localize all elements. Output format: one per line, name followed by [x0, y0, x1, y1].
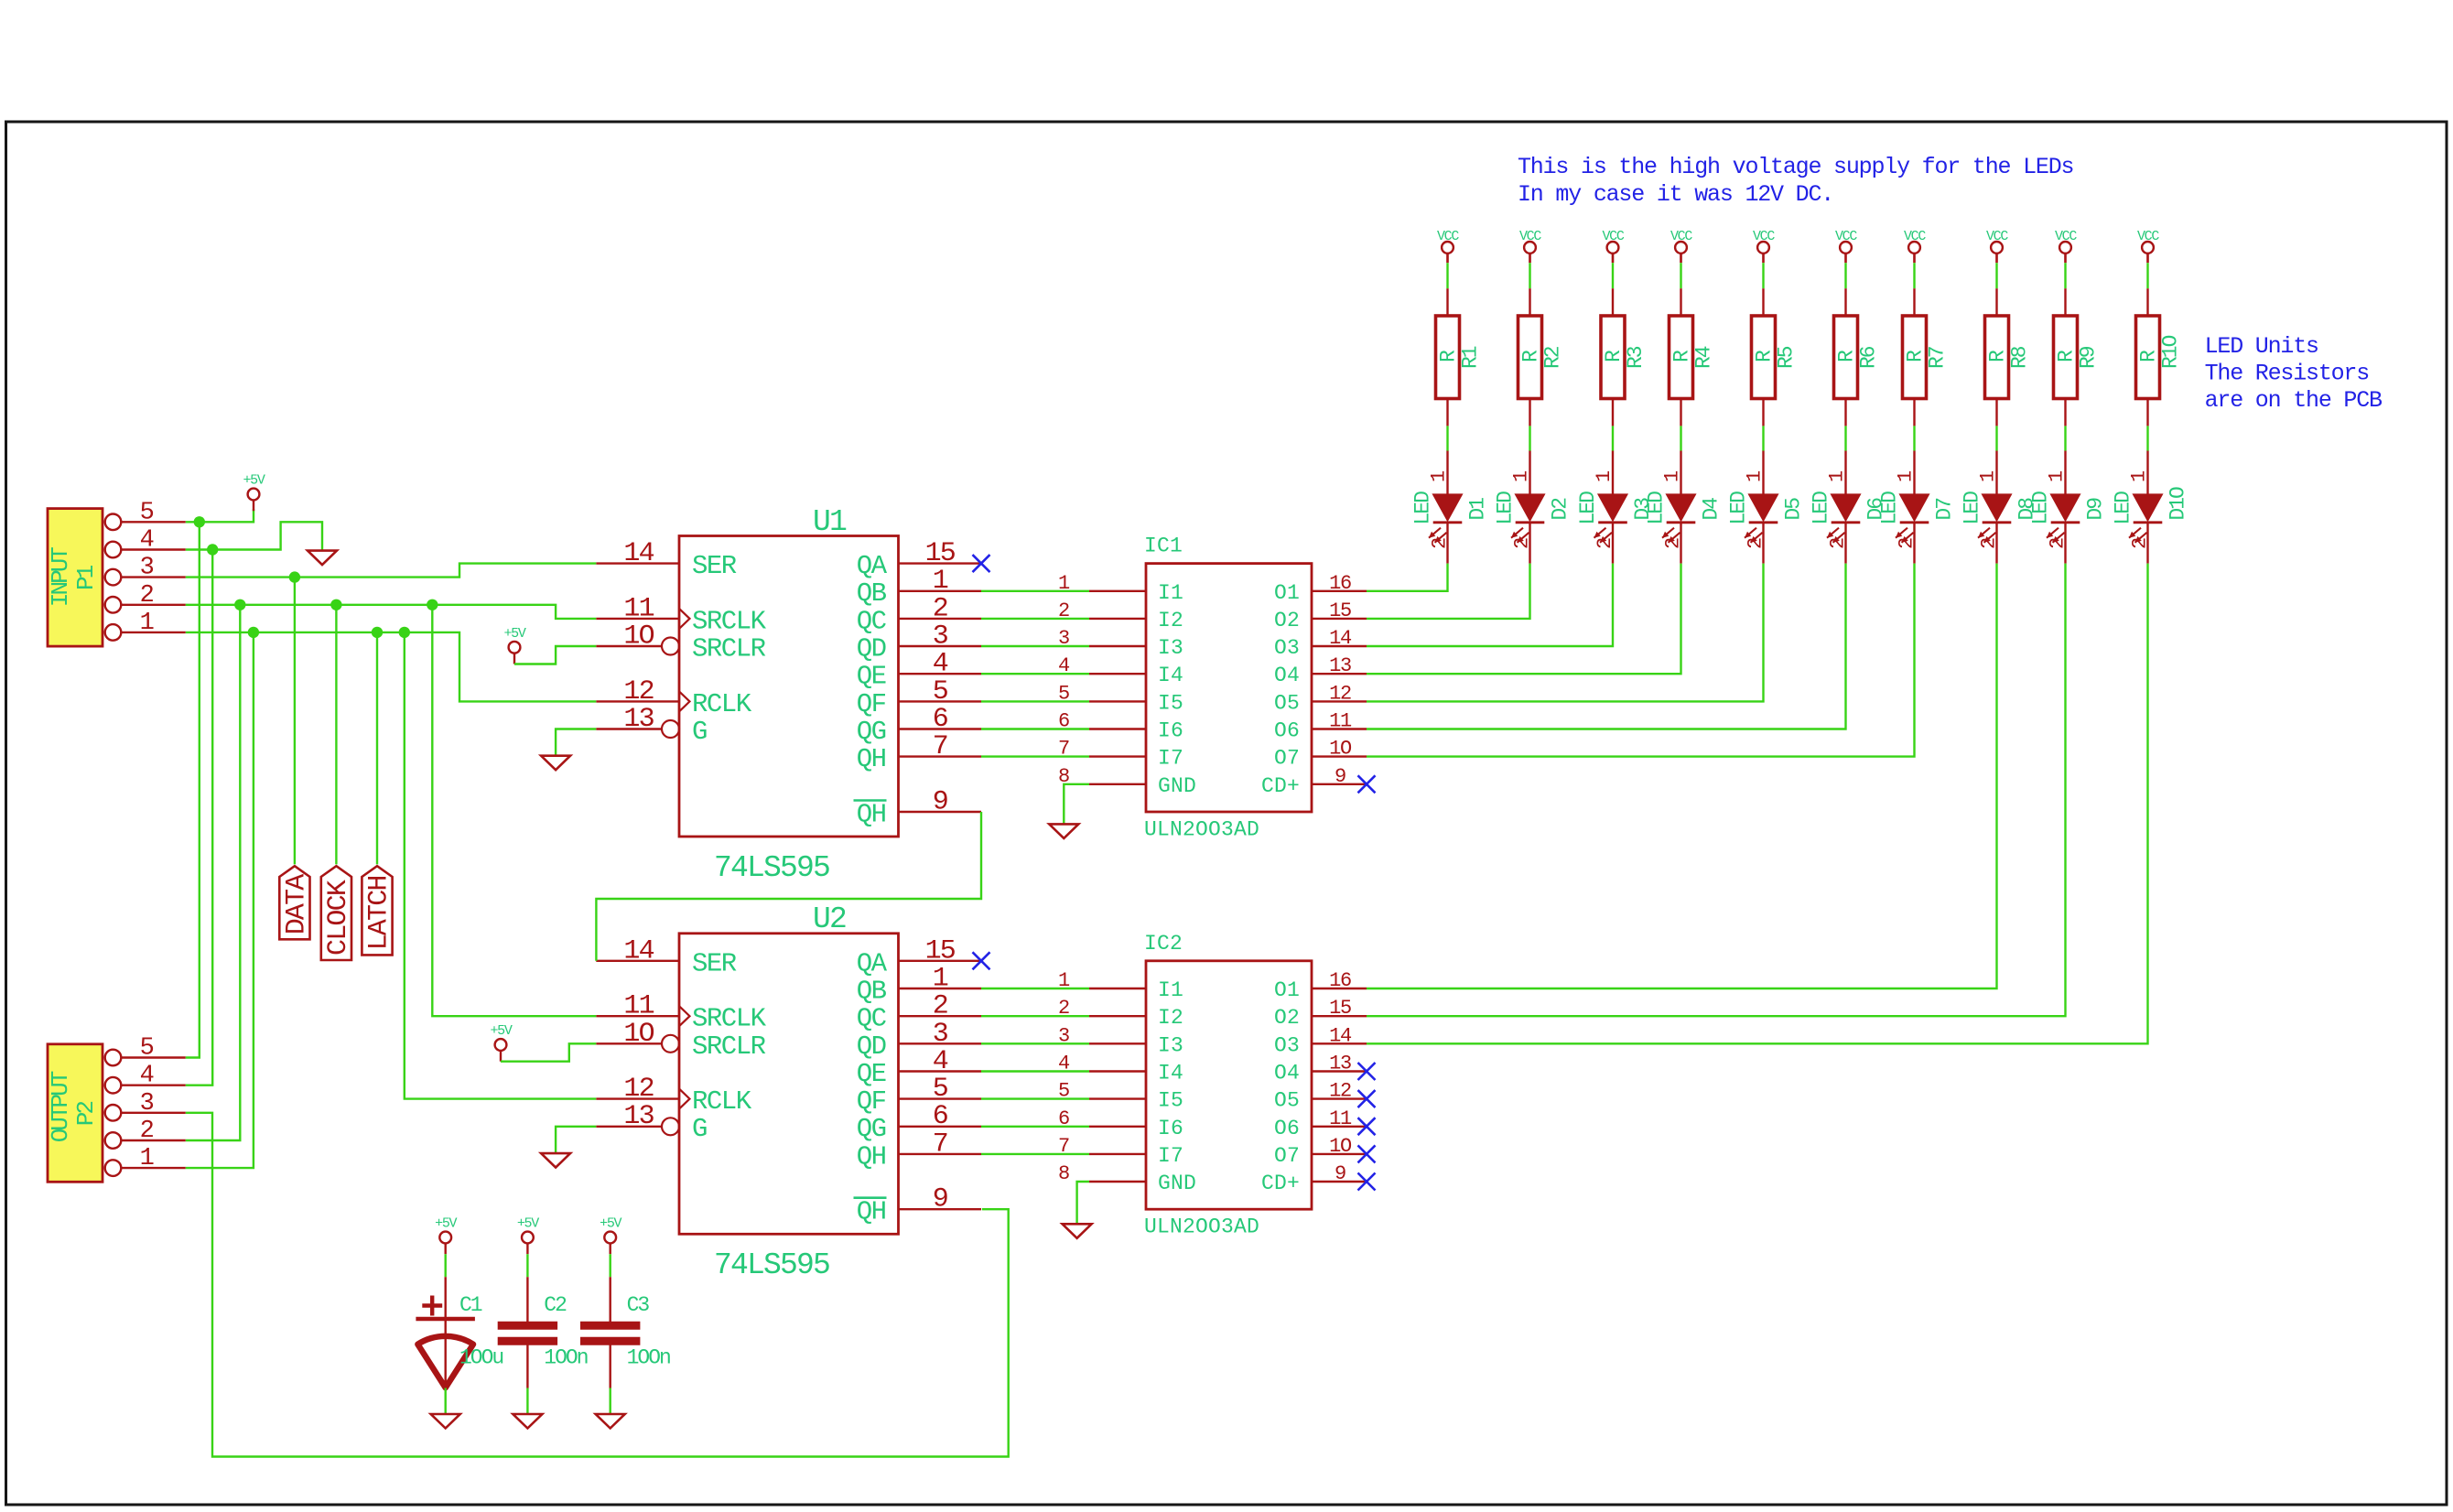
svg-text:O1: O1 [1274, 978, 1300, 1002]
svg-text:QB: QB [857, 977, 887, 1007]
svg-text:SER: SER [692, 551, 737, 581]
svg-text:QC: QC [857, 606, 887, 636]
svg-text:5: 5 [933, 676, 948, 707]
svg-text:1: 1 [1661, 470, 1684, 482]
svg-text:DATA: DATA [281, 874, 312, 935]
svg-text:IC2: IC2 [1144, 932, 1183, 956]
svg-text:12: 12 [623, 1074, 653, 1105]
svg-text:14: 14 [623, 935, 654, 967]
svg-text:8: 8 [1058, 1162, 1069, 1185]
svg-text:ULN2OO3AD: ULN2OO3AD [1144, 1215, 1259, 1239]
svg-text:LED Units: LED Units [2205, 333, 2318, 360]
svg-text:1: 1 [1826, 470, 1849, 482]
svg-text:13: 13 [1329, 654, 1351, 677]
svg-text:2: 2 [933, 991, 947, 1022]
svg-text:C1: C1 [459, 1293, 482, 1317]
svg-text:I6: I6 [1158, 1117, 1183, 1140]
svg-text:QA: QA [857, 948, 888, 978]
svg-text:O5: O5 [1274, 691, 1300, 715]
svg-text:QE: QE [857, 662, 886, 692]
svg-text:15: 15 [925, 935, 956, 967]
svg-text:1O: 1O [623, 621, 654, 653]
svg-text:13: 13 [623, 704, 654, 735]
svg-text:R8: R8 [2008, 346, 2032, 369]
svg-text:16: 16 [1329, 572, 1351, 595]
svg-text:R2: R2 [1541, 346, 1565, 369]
svg-text:1: 1 [933, 566, 948, 597]
svg-text:2: 2 [933, 593, 947, 624]
svg-text:13: 13 [1329, 1053, 1351, 1075]
svg-text:+5V: +5V [517, 1216, 539, 1232]
svg-text:LATCH: LATCH [364, 876, 395, 950]
svg-text:11: 11 [623, 991, 654, 1022]
svg-text:I5: I5 [1158, 1089, 1183, 1113]
svg-text:D5: D5 [1782, 498, 1806, 521]
svg-text:3: 3 [933, 1019, 948, 1050]
svg-text:I3: I3 [1158, 636, 1183, 660]
svg-text:1: 1 [1895, 470, 1918, 482]
svg-text:CLOCK: CLOCK [323, 880, 354, 956]
svg-text:QG: QG [857, 717, 886, 747]
svg-text:2: 2 [140, 1118, 154, 1145]
svg-text:O4: O4 [1274, 1062, 1300, 1085]
svg-text:QE: QE [857, 1059, 886, 1089]
svg-text:14: 14 [623, 538, 654, 569]
svg-text:D9: D9 [2084, 498, 2108, 521]
svg-text:I5: I5 [1158, 691, 1183, 715]
svg-text:15: 15 [1329, 997, 1351, 1020]
svg-text:2: 2 [140, 582, 154, 610]
svg-text:6: 6 [933, 704, 948, 735]
svg-text:3: 3 [140, 1090, 154, 1118]
svg-text:4: 4 [933, 649, 948, 680]
svg-text:14: 14 [1329, 1024, 1352, 1047]
svg-text:1: 1 [1977, 470, 2000, 482]
svg-text:QG: QG [857, 1114, 886, 1144]
svg-text:R4: R4 [1692, 346, 1716, 369]
svg-text:U1: U1 [813, 505, 847, 539]
svg-text:1O: 1O [623, 1019, 654, 1050]
svg-text:R1: R1 [1459, 346, 1483, 369]
svg-text:11: 11 [623, 593, 654, 624]
svg-text:LED: LED [1878, 491, 1902, 525]
svg-text:1OOu: 1OOu [459, 1346, 502, 1370]
svg-text:C2: C2 [544, 1293, 567, 1317]
svg-text:1OOn: 1OOn [627, 1346, 670, 1370]
svg-text:QC: QC [857, 1004, 887, 1034]
svg-text:1O: 1O [1329, 738, 1352, 761]
svg-text:11: 11 [1329, 710, 1352, 733]
svg-text:This is the high voltage suppl: This is the high voltage supply for the … [1518, 154, 2073, 180]
svg-text:13: 13 [623, 1101, 654, 1132]
svg-text:14: 14 [1329, 627, 1352, 650]
svg-text:R7: R7 [1926, 347, 1950, 369]
svg-text:+5V: +5V [600, 1216, 621, 1232]
svg-text:4: 4 [140, 527, 154, 555]
svg-text:LED: LED [1494, 491, 1518, 525]
svg-text:LED: LED [2112, 491, 2135, 525]
svg-text:3: 3 [933, 621, 948, 653]
svg-text:P2: P2 [72, 1102, 100, 1127]
svg-text:QH: QH [857, 744, 886, 774]
svg-text:1: 1 [1510, 470, 1533, 482]
svg-text:U2: U2 [813, 902, 846, 936]
svg-text:74LS595: 74LS595 [714, 851, 829, 885]
svg-text:+5V: +5V [490, 1023, 512, 1039]
svg-text:SRCLK: SRCLK [692, 1004, 767, 1034]
svg-text:R3: R3 [1624, 346, 1648, 369]
svg-text:LED: LED [1645, 491, 1669, 525]
svg-text:1O: 1O [1329, 1135, 1352, 1158]
svg-text:O6: O6 [1274, 719, 1300, 743]
svg-text:I7: I7 [1158, 1144, 1183, 1168]
svg-text:G: G [692, 717, 707, 747]
svg-text:15: 15 [1329, 599, 1351, 622]
svg-text:O5: O5 [1274, 1089, 1300, 1113]
svg-text:CD+: CD+ [1261, 774, 1300, 798]
svg-text:are on the PCB: are on the PCB [2205, 387, 2383, 414]
svg-text:O3: O3 [1274, 636, 1300, 660]
svg-text:11: 11 [1329, 1107, 1352, 1130]
svg-text:I3: I3 [1158, 1033, 1183, 1057]
svg-text:D1O: D1O [2167, 487, 2190, 521]
svg-text:D2: D2 [1549, 498, 1572, 521]
svg-text:LED: LED [1810, 491, 1833, 525]
svg-text:6: 6 [933, 1101, 948, 1132]
svg-text:QF: QF [857, 689, 886, 719]
svg-text:7: 7 [933, 731, 947, 762]
svg-text:I2: I2 [1158, 609, 1183, 632]
svg-text:1: 1 [2046, 470, 2069, 482]
svg-text:9: 9 [933, 787, 947, 818]
svg-text:1: 1 [933, 964, 948, 995]
svg-text:CD+: CD+ [1261, 1172, 1300, 1195]
svg-text:12: 12 [623, 676, 653, 707]
svg-text:C3: C3 [627, 1293, 650, 1317]
svg-text:3: 3 [140, 555, 154, 582]
svg-text:9: 9 [1335, 1162, 1345, 1185]
svg-text:QH: QH [857, 800, 886, 830]
svg-text:+5V: +5V [435, 1216, 457, 1232]
svg-text:GND: GND [1158, 1172, 1196, 1195]
svg-text:15: 15 [925, 538, 956, 569]
svg-text:O7: O7 [1274, 747, 1300, 771]
svg-text:1: 1 [1428, 470, 1451, 482]
svg-text:R9: R9 [2077, 346, 2101, 369]
svg-text:1: 1 [140, 610, 154, 637]
svg-text:5: 5 [140, 499, 154, 526]
svg-text:R6: R6 [1857, 346, 1881, 369]
svg-text:LED: LED [1411, 491, 1435, 525]
svg-text:I4: I4 [1158, 664, 1183, 687]
svg-text:9: 9 [933, 1184, 947, 1215]
svg-text:INPUT: INPUT [47, 547, 74, 607]
svg-text:D4: D4 [1700, 498, 1724, 521]
svg-text:LED: LED [1961, 491, 1984, 525]
svg-text:RCLK: RCLK [692, 1086, 752, 1117]
svg-text:G: G [692, 1114, 707, 1144]
svg-text:O2: O2 [1274, 1006, 1300, 1030]
svg-text:O2: O2 [1274, 609, 1300, 632]
svg-text:O3: O3 [1274, 1033, 1300, 1057]
svg-text:LED: LED [1576, 491, 1600, 525]
svg-text:4: 4 [140, 1063, 154, 1090]
svg-text:D1: D1 [1466, 498, 1490, 521]
svg-text:O1: O1 [1274, 581, 1300, 605]
svg-text:I4: I4 [1158, 1062, 1183, 1085]
svg-text:IC1: IC1 [1144, 535, 1183, 558]
svg-text:QF: QF [857, 1086, 886, 1117]
svg-text:9: 9 [1335, 765, 1345, 788]
svg-text:SRCLK: SRCLK [692, 606, 767, 636]
svg-text:SER: SER [692, 948, 737, 978]
svg-text:16: 16 [1329, 969, 1351, 992]
svg-text:QH: QH [857, 1197, 886, 1227]
svg-text:1: 1 [1744, 470, 1767, 482]
svg-text:74LS595: 74LS595 [714, 1248, 829, 1282]
svg-text:7: 7 [933, 1129, 947, 1160]
svg-text:O7: O7 [1274, 1144, 1300, 1168]
svg-text:R1O: R1O [2159, 335, 2183, 369]
svg-text:LED: LED [1727, 491, 1751, 525]
svg-text:OUTPUT: OUTPUT [47, 1071, 74, 1142]
svg-text:1OOn: 1OOn [544, 1346, 587, 1370]
svg-text:I7: I7 [1158, 747, 1183, 771]
svg-text:I1: I1 [1158, 978, 1183, 1002]
svg-text:O6: O6 [1274, 1117, 1300, 1140]
svg-text:O4: O4 [1274, 664, 1300, 687]
svg-text:QD: QD [857, 634, 886, 664]
svg-text:12: 12 [1329, 682, 1351, 705]
svg-text:SRCLR: SRCLR [692, 634, 766, 664]
svg-text:1: 1 [1593, 470, 1616, 482]
svg-text:GND: GND [1158, 774, 1196, 798]
svg-text:5: 5 [140, 1035, 154, 1063]
svg-text:ULN2OO3AD: ULN2OO3AD [1144, 818, 1259, 842]
svg-text:I6: I6 [1158, 719, 1183, 743]
svg-text:5: 5 [933, 1074, 948, 1105]
svg-text:1: 1 [140, 1145, 154, 1172]
svg-text:I2: I2 [1158, 1006, 1183, 1030]
svg-text:+5V: +5V [503, 626, 525, 642]
svg-text:R5: R5 [1775, 346, 1799, 369]
svg-text:12: 12 [1329, 1080, 1351, 1103]
svg-text:QB: QB [857, 578, 887, 609]
svg-text:LED: LED [2029, 491, 2053, 525]
svg-text:4: 4 [933, 1046, 948, 1077]
svg-text:SRCLR: SRCLR [692, 1031, 766, 1062]
svg-text:The Resistors: The Resistors [2205, 361, 2369, 387]
svg-text:1: 1 [2128, 470, 2151, 482]
svg-text:In my case it was 12V DC.: In my case it was 12V DC. [1518, 181, 1833, 208]
svg-text:+5V: +5V [243, 473, 265, 489]
svg-text:QH: QH [857, 1141, 886, 1172]
svg-text:QA: QA [857, 551, 888, 581]
svg-text:P1: P1 [72, 565, 100, 590]
svg-text:RCLK: RCLK [692, 689, 752, 719]
svg-text:QD: QD [857, 1031, 886, 1062]
svg-text:I1: I1 [1158, 581, 1183, 605]
svg-text:D7: D7 [1933, 499, 1957, 521]
